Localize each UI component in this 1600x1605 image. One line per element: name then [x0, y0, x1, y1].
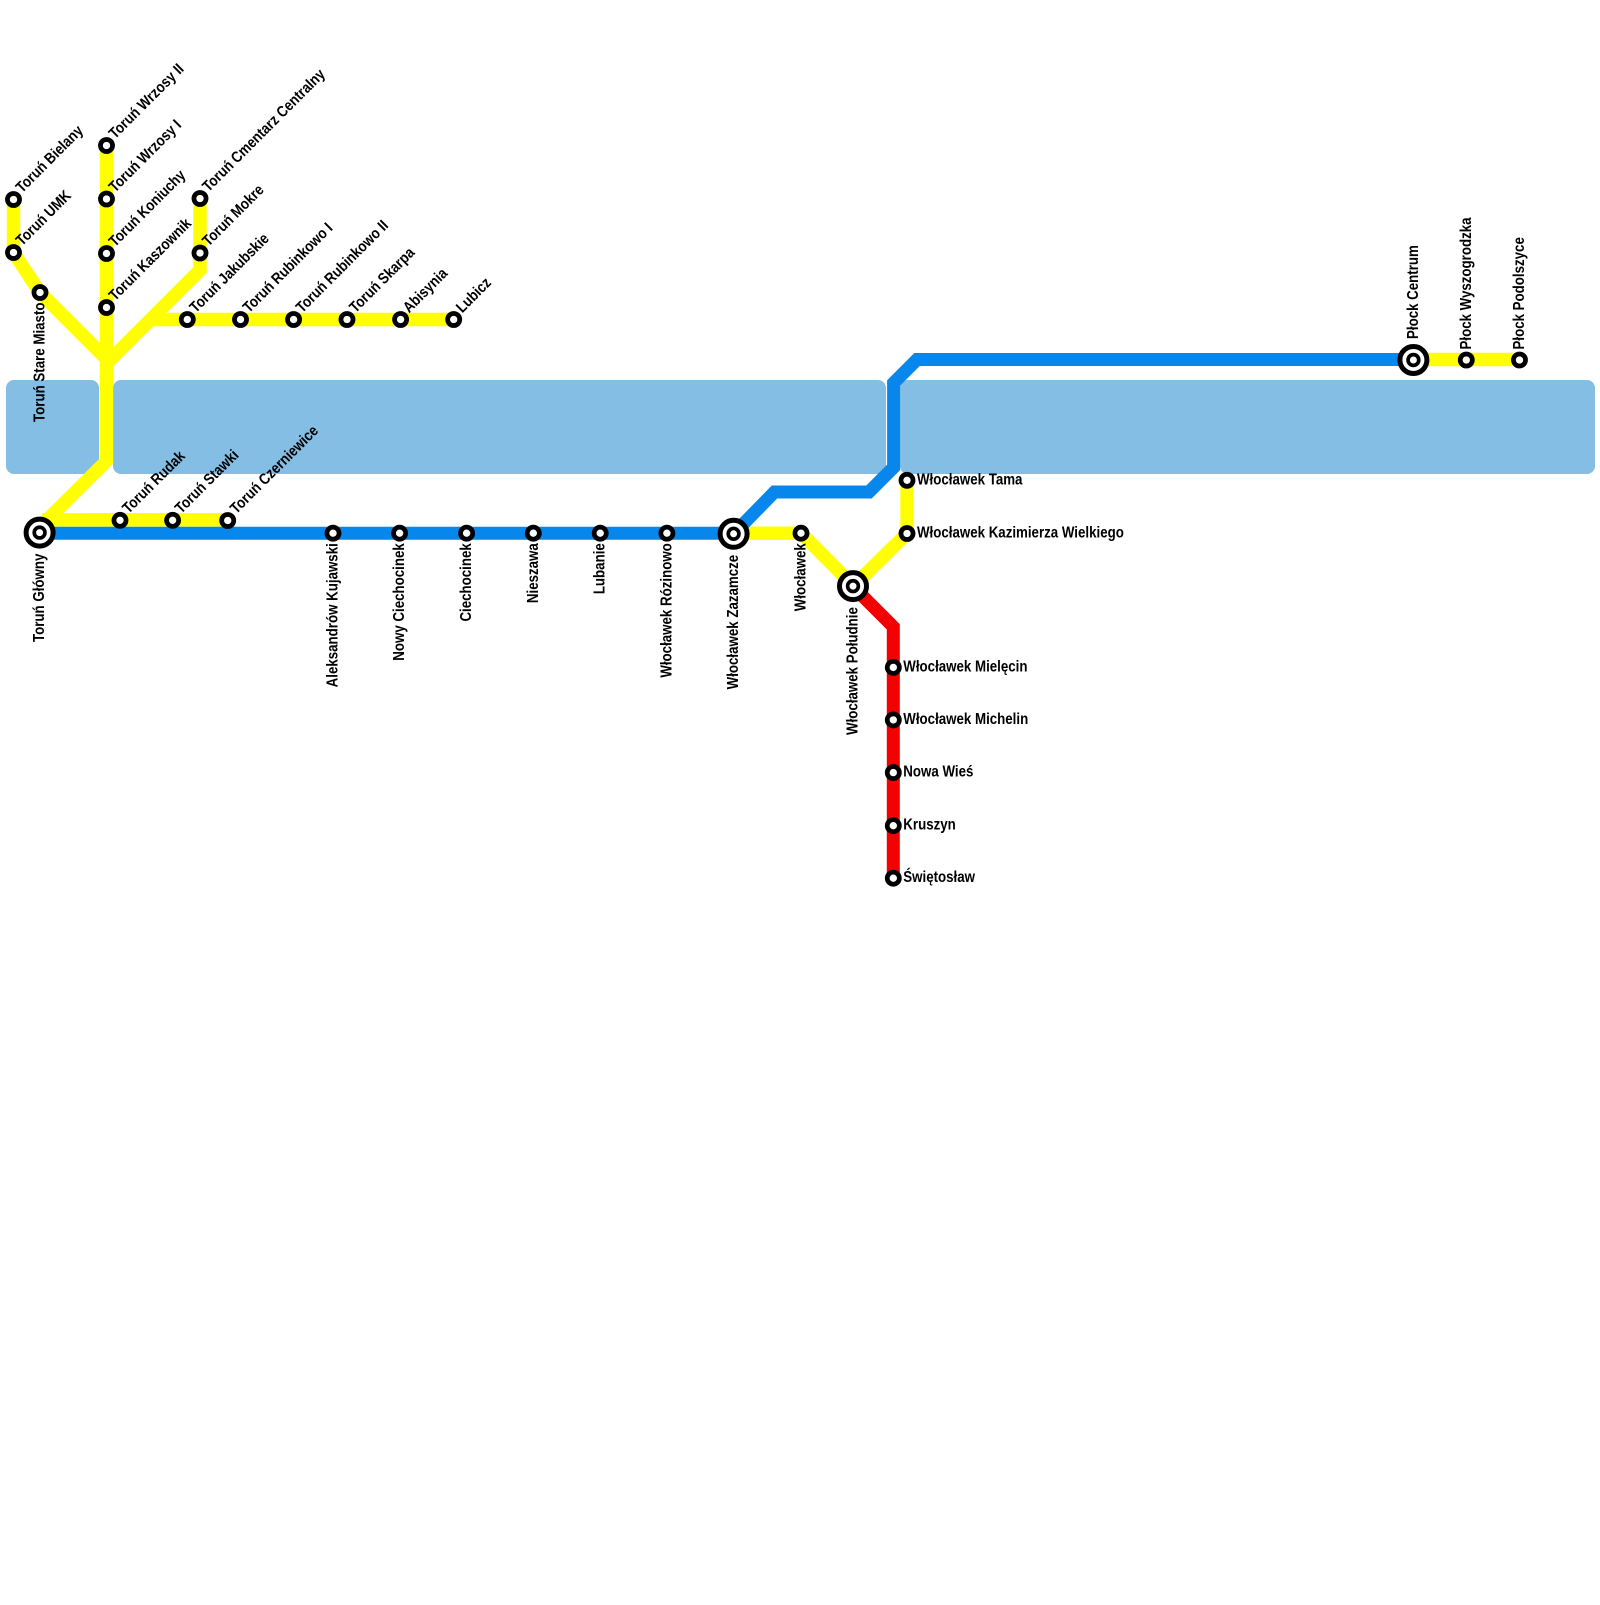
interchange Włocławek Południe [840, 573, 867, 600]
interchange Toruń Główny [26, 519, 53, 546]
station Nowa Wieś [887, 767, 899, 779]
station Włocławek Mielęcin [887, 661, 899, 673]
station Włocławek Tama [901, 474, 913, 486]
station Toruń Mokre [194, 247, 206, 259]
station Włocławek Michelin [887, 714, 899, 726]
station Toruń Bielany [7, 193, 19, 205]
svg-text:Włocławek: Włocławek [793, 542, 810, 611]
station Kruszyn [887, 820, 899, 832]
svg-text:Lubanie: Lubanie [592, 543, 609, 594]
svg-text:Włocławek Zazamcze: Włocławek Zazamcze [725, 555, 742, 690]
svg-text:Włocławek Rózinowo: Włocławek Rózinowo [659, 543, 676, 678]
svg-text:Świętosław: Świętosław [903, 867, 975, 886]
river Wisła segment 3 [900, 380, 1595, 474]
station Toruń Koniuchy [100, 247, 112, 259]
yellow line: Wrzosy trunk to Toruń Główny [41, 146, 107, 527]
yellow line: Południe-Kazimierza-Tama [853, 480, 907, 586]
station Lubicz [448, 313, 460, 325]
blue line: Zazamcze - Płock Centrum [734, 360, 1414, 534]
station Nowy Ciechocinek [394, 527, 406, 539]
svg-text:Ciechocinek: Ciechocinek [458, 542, 475, 621]
svg-text:Włocławek Południe: Włocławek Południe [845, 607, 862, 735]
svg-text:Nieszawa: Nieszawa [525, 542, 542, 603]
yellow line: east branch to Lubicz [151, 313, 454, 326]
station Nieszawa [527, 527, 539, 539]
svg-text:Toruń Stare Miasto: Toruń Stare Miasto [32, 302, 49, 422]
svg-text:Włocławek Kazimierza Wielkiego: Włocławek Kazimierza Wielkiego [917, 525, 1124, 542]
red line: Włocławek Południe - Świętosław [853, 587, 893, 879]
station Toruń Wrzosy II [100, 139, 112, 151]
svg-text:Nowy Ciechocinek: Nowy Ciechocinek [391, 542, 408, 660]
svg-text:Aleksandrów Kujawski: Aleksandrów Kujawski [325, 543, 342, 687]
station Toruń Czerniewice [222, 514, 234, 526]
station Toruń Rudak [114, 514, 126, 526]
station Toruń Jakubskie [181, 313, 193, 325]
station Toruń Cmentarz Centralny [194, 192, 206, 204]
station Aleksandrów Kujawski [327, 527, 339, 539]
station Ciechocinek [461, 527, 473, 539]
station Lubanie [594, 527, 606, 539]
station Płock Wyszogrodzka [1460, 354, 1472, 366]
svg-text:Płock Wyszogrodzka: Płock Wyszogrodzka [1458, 217, 1475, 350]
station Abisynia [395, 313, 407, 325]
interchange Włocławek Zazamcze [720, 520, 747, 547]
station Toruń Skarpa [341, 313, 353, 325]
station Toruń UMK [7, 246, 19, 258]
station Toruń Wrzosy I [100, 193, 112, 205]
river Wisła segment 1 [6, 380, 99, 474]
yellow line: Cmentarz-Mokre branch [108, 199, 200, 363]
yellow line: Bielany-UMK-Stare Miasto branch [14, 200, 107, 360]
station Włocławek Kazimierza Wielkiego [901, 527, 913, 539]
svg-text:Włocławek Michelin: Włocławek Michelin [903, 711, 1028, 728]
station Włocławek [795, 527, 807, 539]
svg-text:Płock Centrum: Płock Centrum [1405, 245, 1422, 339]
station Toruń Stawki [167, 514, 179, 526]
svg-text:Włocławek Tama: Włocławek Tama [917, 471, 1023, 488]
station Świętosław [887, 872, 899, 884]
svg-text:Nowa Wieś: Nowa Wieś [903, 764, 973, 781]
svg-text:Toruń Główny: Toruń Główny [31, 554, 48, 642]
station Toruń Rubinkowo II [288, 313, 300, 325]
station Włocławek Rózinowo [661, 527, 673, 539]
svg-text:Kruszyn: Kruszyn [903, 817, 955, 834]
river Wisła segment 2 [113, 380, 886, 474]
svg-text:Płock Podolszyce: Płock Podolszyce [1511, 237, 1528, 349]
station Toruń Stare Miasto [34, 286, 46, 298]
station Płock Podolszyce [1513, 354, 1525, 366]
yellow line: Główny-Czerniewice segment [42, 513, 228, 526]
yellow line: Płock segment [1413, 353, 1519, 366]
interchange Płock Centrum [1400, 347, 1427, 374]
station Toruń Rubinkowo I [234, 313, 246, 325]
blue line: Toruń Główny - Włocławek Zazamcze [40, 527, 734, 540]
svg-text:Włocławek Mielęcin: Włocławek Mielęcin [903, 659, 1027, 676]
station Toruń Kaszownik [100, 301, 112, 313]
yellow line: Zazamcze-Włocławek-Południe [735, 533, 854, 586]
